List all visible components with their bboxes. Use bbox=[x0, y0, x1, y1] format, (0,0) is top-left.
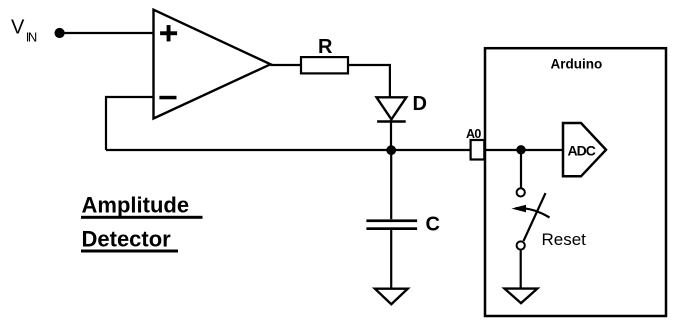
svg-text:ADC: ADC bbox=[568, 142, 596, 158]
ground Arduino bbox=[505, 289, 538, 304]
svg-text:D: D bbox=[413, 93, 427, 115]
op-amp U1 bbox=[154, 10, 271, 119]
svg-text:A0: A0 bbox=[466, 127, 481, 141]
wire VIN to op-amp + input bbox=[60, 32, 154, 34]
ground capacitor bbox=[375, 289, 408, 305]
svg-text:Amplitude: Amplitude bbox=[82, 193, 190, 218]
wire node to capacitor bbox=[390, 150, 392, 219]
title Amplitude Detector line 2 bbox=[81, 226, 178, 252]
wire node to reset switch bbox=[520, 150, 522, 188]
svg-text:R: R bbox=[318, 36, 333, 58]
wire feedback from - input bbox=[106, 97, 154, 150]
svg-text:C: C bbox=[426, 214, 440, 236]
wire R to diode bbox=[348, 65, 390, 97]
label VIN bbox=[11, 16, 37, 44]
Arduino box bbox=[485, 48, 666, 316]
switch Reset: top contact bbox=[517, 188, 525, 196]
ADC block bbox=[563, 123, 606, 176]
pin A0 box bbox=[471, 140, 485, 160]
svg-text:Reset: Reset bbox=[542, 230, 587, 249]
junction node main bbox=[386, 145, 396, 155]
op-amp + input symbol bbox=[160, 25, 177, 41]
node VIN input dot bbox=[55, 28, 65, 38]
wire op-amp output to R bbox=[271, 64, 302, 66]
capacitor C plates bbox=[366, 219, 417, 230]
wire switch to ground bbox=[520, 250, 522, 289]
switch Reset: bottom contact bbox=[517, 241, 525, 249]
svg-text:V: V bbox=[11, 16, 25, 38]
switch Reset: actuation arrow bbox=[512, 205, 550, 218]
wire A0 to ADC bbox=[484, 149, 563, 151]
wire main horizontal node line bbox=[106, 149, 471, 151]
svg-text:Detector: Detector bbox=[82, 226, 172, 251]
title Amplitude Detector line 1 bbox=[81, 193, 203, 219]
svg-text:Arduino: Arduino bbox=[551, 56, 603, 71]
wire capacitor to ground bbox=[390, 230, 392, 289]
svg-text:IN: IN bbox=[26, 30, 37, 45]
switch Reset: lever bbox=[524, 193, 546, 241]
resistor R bbox=[301, 57, 348, 73]
wire diode to main node bbox=[390, 120, 392, 150]
junction node reset branch bbox=[516, 145, 525, 154]
diode D bbox=[377, 97, 407, 121]
op-amp - input symbol bbox=[159, 96, 176, 100]
